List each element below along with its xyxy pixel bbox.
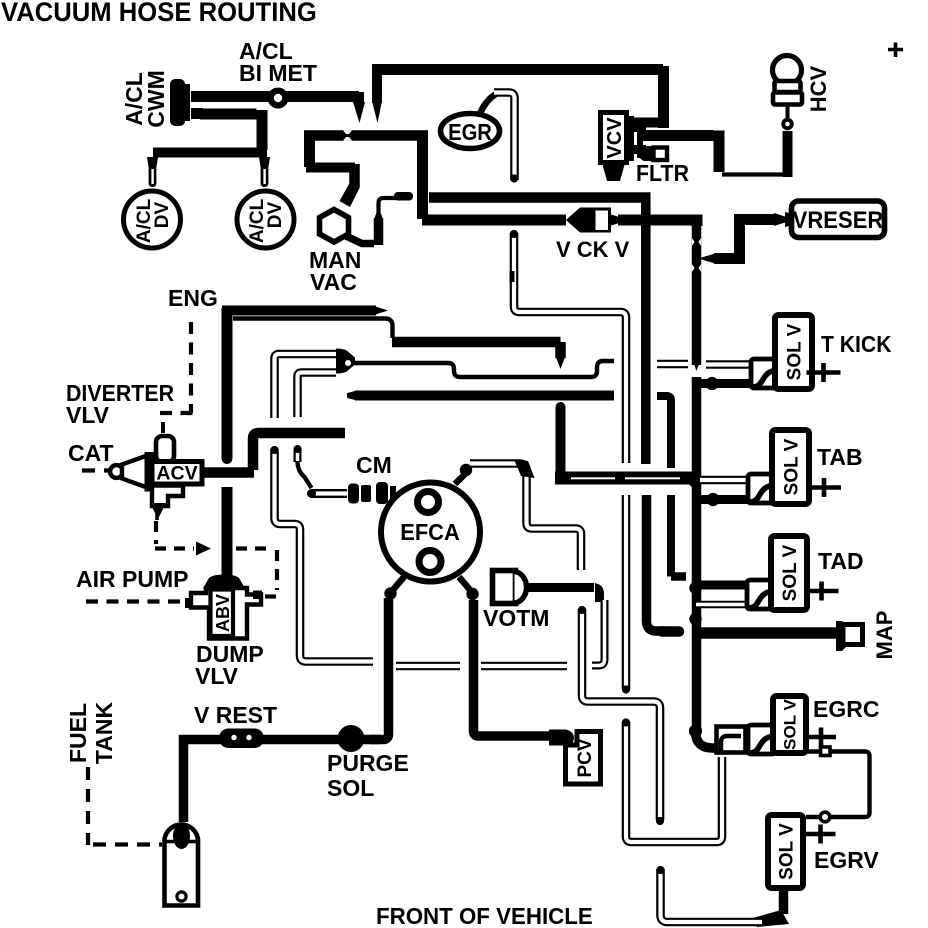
wire top manifold left drop [372,64,382,123]
CAT inlet horn [110,456,147,488]
TAB terminal [807,478,841,497]
svg-text:EGRC: EGRC [813,696,879,722]
svg-text:VAC: VAC [310,269,357,295]
A/CL DV valve 2 [237,191,294,248]
hose T KICK thick [700,379,754,388]
hose lower manifold mid [396,662,460,671]
MAN VAC hexagon [320,210,349,243]
hose TAB thin [700,476,749,485]
svg-text:SOL V: SOL V [784,323,805,380]
svg-text:CM: CM [356,452,392,478]
VCV valve box [601,113,627,163]
hose HCV drop [783,131,793,177]
wire stub to TAB band [556,402,566,477]
wire top manifold right drop to VCV [634,66,667,128]
hose EFCA to VOTM drop [470,460,581,571]
hose TAB feed band [555,472,693,485]
EFCA bottom port [419,551,441,573]
FLTR filter [639,146,667,161]
svg-text:FLTR: FLTR [636,160,689,186]
svg-text:VCV: VCV [604,117,626,159]
hose ACV to ABV [222,487,233,576]
solenoid EGRV SOL V [768,815,803,888]
hose CWM to BI MET [198,91,359,102]
hose manifold junction bar [304,130,428,141]
svg-text:TAD: TAD [818,548,864,574]
hose MAN VAC riser [374,206,383,245]
svg-text:SOL V: SOL V [776,823,797,880]
hose ACV outlet riser [253,433,345,470]
label DUMP VLV [195,641,264,689]
hose BI MET to manifold corner [290,92,365,123]
svg-text:BI MET: BI MET [239,60,317,86]
hose CWM lower [200,110,262,150]
label FLTR [636,160,689,186]
FUEL TANK sender [164,823,198,906]
svg-text:V REST: V REST [194,702,277,728]
VRESER connector [774,212,793,227]
label V CK V [556,237,630,262]
EFCA nipple bottom left [384,577,404,600]
MAP connector [836,621,863,651]
label TAD [818,548,864,574]
label DIVERTER VLV [66,380,174,428]
svg-text:AIR PUMP: AIR PUMP [76,566,188,592]
VCV filter funnel [602,163,625,181]
EFCA top port [418,492,439,513]
svg-text:ABV: ABV [213,594,233,632]
VRESER reservoir box [792,201,885,238]
ABV dome [203,575,245,589]
label HCV [806,65,831,112]
CM valve [348,482,396,504]
svg-text:SOL V: SOL V [781,698,800,749]
svg-text:MAP: MAP [872,611,897,660]
svg-text:ENG: ENG [168,285,218,311]
svg-text:ACV: ACV [156,463,197,485]
hose EGR to EGRC mid [622,495,630,694]
hose cross to DV valves [153,148,267,158]
label TAB [817,444,863,470]
VOTM body [493,571,527,604]
svg-text:DV: DV [152,201,173,228]
EGR valve oval [440,114,499,149]
wire AIR PUMP dashed box [86,549,277,602]
hose top manifold run [377,64,663,75]
TAD terminal [805,582,839,601]
nested hose outer L [275,354,338,418]
wire EGRC to EGRV [804,747,870,822]
EGRC inlet box [717,727,746,753]
ABV right nub [253,591,262,600]
hose EGRC feed [696,731,721,748]
hose short link [657,360,688,369]
svg-text:FRONT OF VEHICLE: FRONT OF VEHICLE [376,903,593,928]
connector stub DV1 [147,157,158,187]
wire jogged thin hose [354,361,614,377]
svg-text:VRESER: VRESER [793,206,884,233]
label CAT [68,440,114,466]
EGRC terminal [806,728,836,747]
wire FUEL TANK dashed [88,767,162,845]
A/CL BI MET check ring [268,88,289,109]
label MAN VAC [309,247,361,295]
label PURGE SOL [327,750,409,801]
solenoid TAD SOL V [771,536,807,610]
node MAP junction [689,613,701,625]
ACV valve body [145,436,184,519]
V CK V valve [566,208,621,233]
hose junction to MAN VAC [306,135,360,207]
wire carb corner down [641,198,651,220]
EGRC clamp [748,725,775,754]
wire ACV top nipple [161,422,165,433]
wire CAT dashed [82,468,112,472]
hose ACV outlet [203,467,254,478]
svg-text:VLV: VLV [66,402,110,428]
EFCA body [381,483,480,582]
node TAD junction [689,582,701,594]
svg-text:CWM: CWM [143,70,169,127]
EFCA nipple top right [455,464,472,484]
svg-text:SOL V: SOL V [780,544,801,601]
solenoid EGRC SOL V [773,696,806,753]
label A/CL CWM [121,70,169,127]
wire CM drop [294,445,312,488]
hose MAP [700,627,836,639]
ABV label box [211,590,234,637]
V REST valve [219,729,264,749]
wire junction bar drop [417,137,428,219]
TAD clamp [747,580,774,609]
hose EFCA pcv drop [474,600,552,736]
hose ENG drop [222,308,233,464]
svg-text:EGRV: EGRV [814,847,879,873]
label A/CL BI MET [239,38,317,86]
svg-text:VLV: VLV [195,663,239,689]
svg-text:SOL: SOL [327,775,374,801]
wire ACV dashed pointer [155,521,211,556]
title VACUUM HOSE ROUTING [1,0,317,27]
wire MAN VAC hook [379,192,414,212]
PURGE SOL valve [338,725,365,752]
hose T KICK thin [706,360,753,369]
hose VOTM drop [592,600,605,666]
svg-text:PURGE: PURGE [327,750,409,776]
nested hose inner L [298,373,337,418]
hose VCV to HCV corner [643,131,719,173]
plus mark top right [888,43,903,58]
node TAB junction [706,493,719,506]
label T KICK [821,331,892,357]
label VOTM [483,605,549,631]
PCV label box [566,732,601,785]
hose V REST to tank [184,740,223,823]
hose purge run [262,735,380,745]
hose lower manifold right [481,662,567,671]
svg-text:PCV: PCV [575,738,596,777]
hose EGR to EGRC lower [622,718,722,842]
label EGRC [813,696,879,722]
A/CL CWM modulator body [170,79,203,126]
solenoid TAB SOL V [772,430,809,504]
HCV valve body [773,56,803,105]
hose lower manifold left [270,446,373,662]
PCV connector blob [549,730,574,746]
hose TAD thick [700,581,750,590]
wire branch x646 [646,225,679,632]
svg-text:TANK: TANK [91,702,117,765]
wire HCV neck [786,103,790,119]
ABV valve body [191,588,261,639]
label FRONT OF VEHICLE [376,903,593,928]
wire branch x671 [657,396,686,577]
wire main solenoid feed [692,222,701,731]
connector stub DV2 [259,157,270,187]
hose VOTM outlet [527,583,604,602]
svg-text:HCV: HCV [806,65,831,112]
hose EGR to EGRC upper [510,230,627,463]
label MAP [872,611,897,660]
hose mid lower run [347,391,614,400]
HCV check ring [781,118,793,130]
hose EFCA drop lower [578,606,664,825]
hose TAD thin [696,601,746,609]
label EGRV [814,847,879,873]
wire EGR to hose [479,94,497,117]
T KICK terminal [807,363,841,382]
hose TAB thick [696,495,751,504]
svg-text:SOL V: SOL V [781,438,802,495]
svg-text:VACUUM HOSE ROUTING: VACUUM HOSE ROUTING [1,0,317,27]
wire manifold right drop corner [692,220,698,226]
hose VRESER branch [698,214,778,264]
hose V CK V line right [618,215,692,226]
hose mid thick run [392,342,566,369]
label AIR PUMP [76,566,188,592]
svg-text:T KICK: T KICK [821,331,892,357]
label V REST [194,702,277,728]
node TAB feed junction [689,474,703,488]
ABV left nub [185,598,193,608]
EGRV terminal [806,825,836,844]
node EGRC junction [689,724,702,737]
hose V CK V line left [422,215,566,226]
svg-text:DV: DV [265,201,286,228]
wire thin under ENG run [233,319,393,339]
svg-text:FUEL: FUEL [65,703,91,763]
hose EGRV drop [753,888,789,927]
hose CM inlet [307,489,347,498]
svg-text:EFCA: EFCA [400,519,459,545]
T KICK clamp [751,359,778,388]
svg-text:V CK V: V CK V [556,237,630,262]
svg-text:TAB: TAB [817,444,863,470]
hose EFCA purge drop [370,598,389,740]
node T KICK junction [705,377,718,390]
hose EGRV bottom run [656,866,762,922]
wire ACV bottom nipple [155,512,159,520]
hose ENG top run [222,306,388,315]
solenoid T KICK SOL V [775,315,812,389]
label FUEL TANK [65,702,117,765]
ACV label box [152,462,202,485]
hose carb line [429,192,651,203]
VCV bracket [628,116,646,161]
wire DIVERTER dashed [160,322,194,413]
connector nested hoses [336,349,355,374]
TAB clamp [748,474,775,503]
label CM [356,452,392,478]
label ENG [168,285,218,311]
A/CL DV valve 1 [124,191,181,248]
wire corner to HCV [722,172,784,176]
svg-text:VOTM: VOTM [483,605,549,631]
hose EGR down leg [494,93,518,183]
hose MAN VAC arm [346,236,374,244]
EFCA nipple bottom right [459,577,479,600]
svg-text:EGR: EGR [448,119,492,146]
svg-text:CAT: CAT [68,440,114,466]
label EFCA [400,519,459,545]
